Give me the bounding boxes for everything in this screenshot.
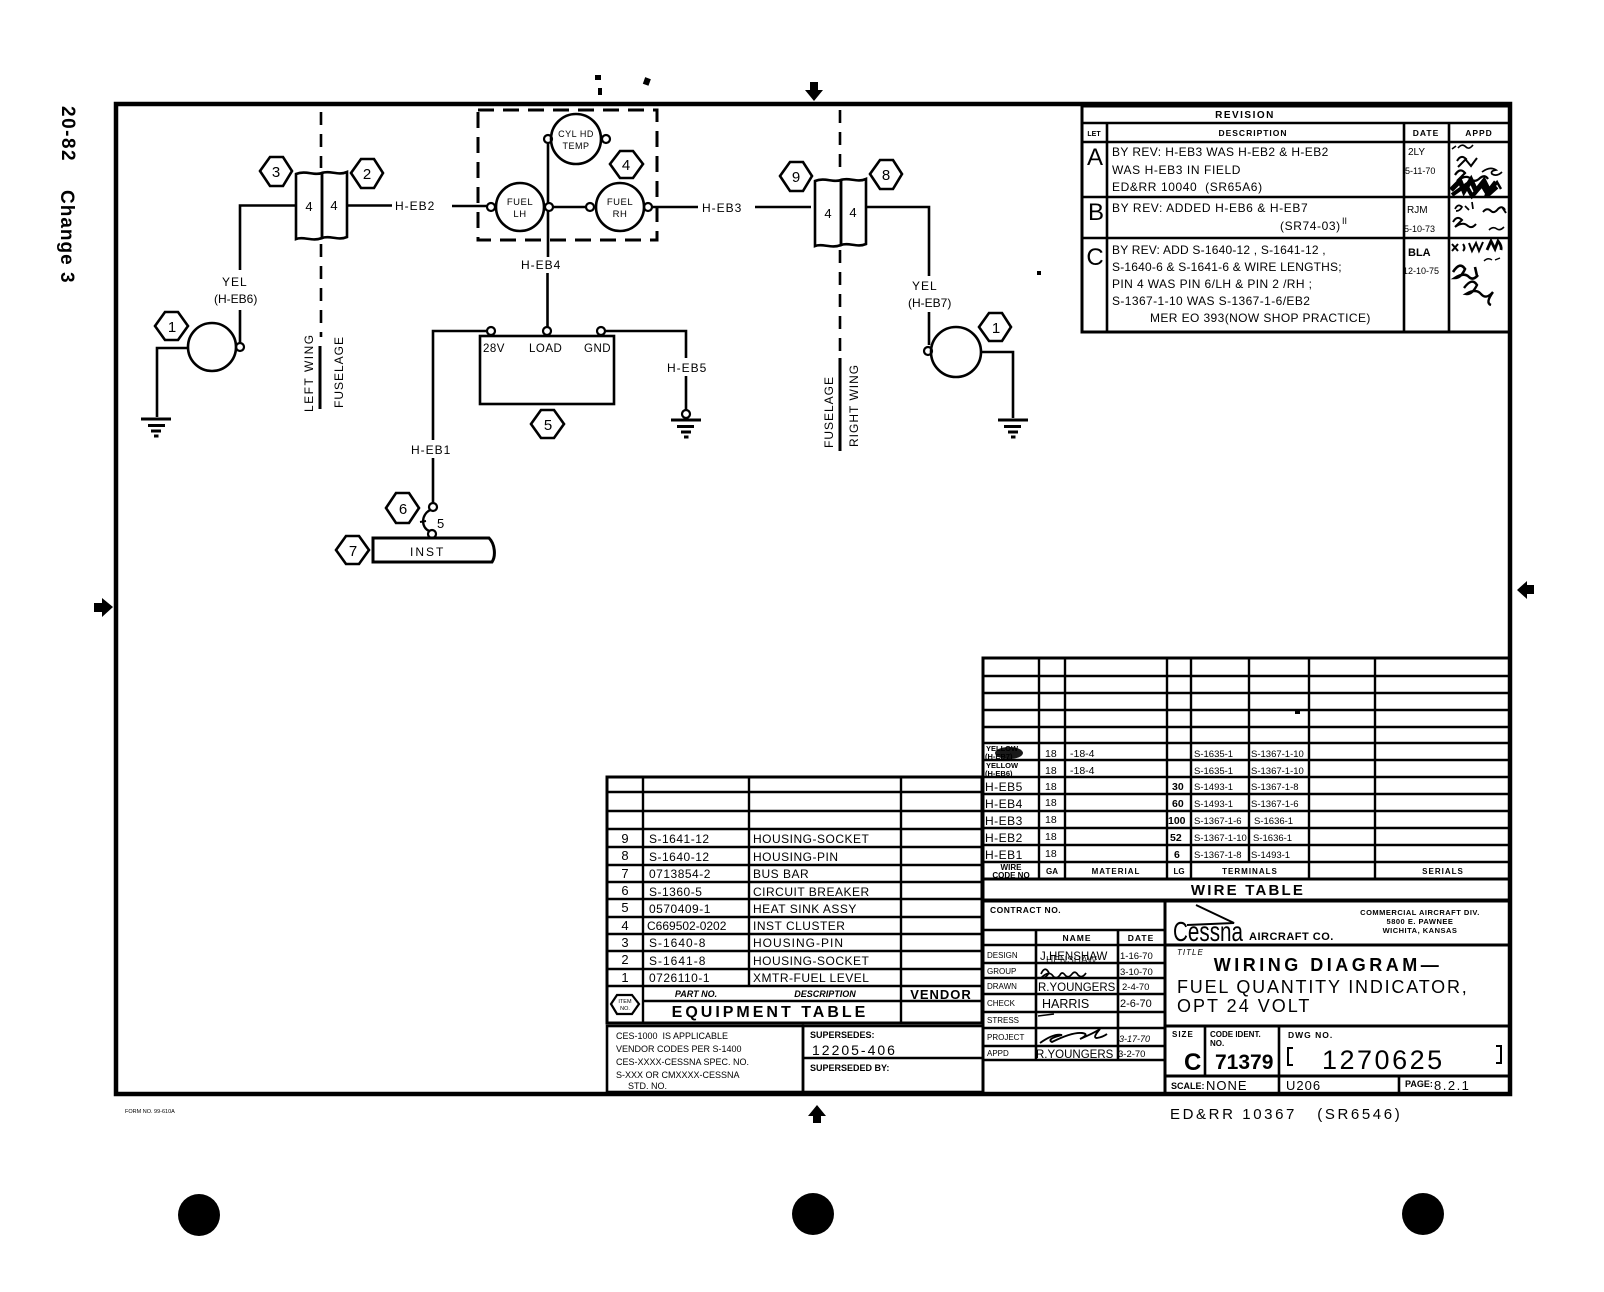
svg-text:HARRIS: HARRIS bbox=[1042, 997, 1089, 1011]
item no hexagon symbol bbox=[611, 995, 639, 1014]
design row bbox=[987, 951, 1153, 966]
svg-text:FUEL: FUEL bbox=[607, 197, 633, 208]
svg-text:12-10-75: 12-10-75 bbox=[1403, 266, 1439, 276]
equipment table grid bbox=[607, 777, 982, 1023]
svg-text:FUSELAGE: FUSELAGE bbox=[822, 376, 836, 448]
revision row A bbox=[1087, 144, 1435, 194]
group row (signature) bbox=[987, 967, 1153, 978]
vendor codes note box bbox=[607, 1026, 803, 1092]
equipment table header row bbox=[675, 987, 972, 1002]
svg-text:II: II bbox=[1342, 216, 1347, 226]
svg-text:TITLE: TITLE bbox=[1177, 948, 1204, 957]
svg-text:ITEM: ITEM bbox=[618, 999, 632, 1005]
svg-text:FUEL QUANTITY INDICATOR,: FUEL QUANTITY INDICATOR, bbox=[1177, 977, 1469, 997]
wire row H-EB7 (yellow) bbox=[995, 747, 1023, 759]
svg-text:S-1636-1: S-1636-1 bbox=[1253, 833, 1292, 844]
svg-text:SCALE:: SCALE: bbox=[1171, 1081, 1205, 1091]
svg-text:R.YOUNGERS: R.YOUNGERS bbox=[1036, 1049, 1114, 1061]
svg-text:HOUSING-PIN: HOUSING-PIN bbox=[753, 936, 844, 950]
svg-text:SIZE: SIZE bbox=[1172, 1030, 1194, 1039]
pin terminal FUEL LH right / node junction bbox=[545, 203, 553, 211]
gauge U-CYL: CYL HD TEMP bbox=[551, 114, 601, 164]
svg-text:1: 1 bbox=[621, 970, 628, 985]
svg-text:18: 18 bbox=[1045, 781, 1057, 793]
svg-text:20-82: 20-82 bbox=[57, 106, 78, 162]
svg-text:TERMINALS: TERMINALS bbox=[1222, 867, 1278, 876]
svg-text:5: 5 bbox=[437, 516, 444, 531]
svg-text:H-EB2: H-EB2 bbox=[985, 831, 1023, 845]
svg-text:C: C bbox=[1086, 244, 1103, 271]
revision row C approval signatures bbox=[1452, 241, 1501, 305]
svg-text:PROJECT: PROJECT bbox=[987, 1033, 1024, 1042]
svg-text:S-1367-1-8: S-1367-1-8 bbox=[1251, 782, 1299, 793]
svg-text:18: 18 bbox=[1045, 748, 1057, 760]
svg-text:3-17-70: 3-17-70 bbox=[1119, 1034, 1150, 1044]
pin terminal FUEL RH right bbox=[644, 203, 652, 211]
svg-text:U206: U206 bbox=[1286, 1078, 1321, 1093]
circuit breaker CB (item 6) pin 5 bbox=[420, 503, 444, 538]
svg-text:APPD: APPD bbox=[987, 1049, 1009, 1058]
hexagon callout 6 bbox=[386, 493, 419, 523]
project row (signature) bbox=[987, 1029, 1150, 1044]
svg-text:WAS H-EB3 IN FIELD: WAS H-EB3 IN FIELD bbox=[1112, 163, 1241, 177]
svg-text:1-16-70: 1-16-70 bbox=[1120, 951, 1153, 962]
wire row H-EB5 bbox=[985, 780, 1299, 794]
svg-text:2-4-70: 2-4-70 bbox=[1122, 982, 1149, 993]
svg-text:4: 4 bbox=[330, 198, 337, 213]
stress row bbox=[987, 1014, 1054, 1025]
svg-text:DESCRIPTION: DESCRIPTION bbox=[1218, 128, 1287, 138]
svg-text:CES-1000 IS APPLICABLE: CES-1000 IS APPLICABLE bbox=[616, 1031, 728, 1041]
registration arrow bottom (points up) bbox=[808, 1105, 826, 1123]
svg-text:GND: GND bbox=[584, 343, 611, 355]
wire row H-EB1 bbox=[985, 848, 1290, 862]
svg-text:INST: INST bbox=[410, 545, 445, 559]
registration arrow top (points down) bbox=[805, 82, 823, 101]
svg-text:R.YOUNGERS: R.YOUNGERS bbox=[1038, 982, 1116, 994]
svg-text:18: 18 bbox=[1045, 848, 1057, 860]
svg-text:-18-4: -18-4 bbox=[1070, 765, 1095, 777]
svg-text:LG: LG bbox=[1173, 867, 1184, 876]
drawing border frame bbox=[116, 104, 1510, 1094]
hexagon callout 1 (right) bbox=[979, 313, 1011, 341]
svg-text:S-1367-1-10: S-1367-1-10 bbox=[1251, 766, 1304, 777]
svg-text:RJM: RJM bbox=[1407, 205, 1428, 216]
svg-text:5-11-70: 5-11-70 bbox=[1405, 166, 1435, 176]
equipment row 2 bbox=[621, 952, 869, 968]
svg-text:APPD: APPD bbox=[1465, 128, 1493, 138]
hexagon callout 7 bbox=[336, 536, 369, 564]
svg-text:8.2.1: 8.2.1 bbox=[1434, 1078, 1470, 1093]
svg-text:S-1636-1: S-1636-1 bbox=[1254, 816, 1293, 827]
ground symbol (H-EB5) bbox=[671, 420, 701, 437]
wire junction to FUEL RH bbox=[553, 206, 586, 209]
svg-text:S-1640-6 & S-1641-6 & WIRE LEN: S-1640-6 & S-1641-6 & WIRE LENGTHS; bbox=[1112, 260, 1342, 274]
wire CYL-to-junction vertical bbox=[547, 143, 550, 203]
svg-text:18: 18 bbox=[1045, 831, 1057, 843]
svg-text:A: A bbox=[1087, 144, 1103, 171]
svg-text:DATE: DATE bbox=[1413, 128, 1440, 138]
svg-text:7: 7 bbox=[621, 866, 628, 881]
svg-text:H-EB1: H-EB1 bbox=[985, 848, 1023, 862]
transmitter XMTR fuel level RH (item 1) bbox=[931, 327, 981, 377]
drawn row bbox=[987, 982, 1149, 994]
title cell bbox=[1177, 948, 1469, 1016]
svg-text:HENSHAW: HENSHAW bbox=[1046, 955, 1097, 966]
svg-text:DESCRIPTION: DESCRIPTION bbox=[794, 989, 856, 999]
revision table bbox=[1082, 106, 1510, 332]
svg-text:4: 4 bbox=[824, 206, 831, 221]
svg-text:2: 2 bbox=[621, 952, 628, 967]
svg-text:EQUIPMENT TABLE: EQUIPMENT TABLE bbox=[672, 1004, 869, 1021]
equipment row 9 bbox=[621, 831, 869, 846]
svg-text:WIRING DIAGRAM—: WIRING DIAGRAM— bbox=[1214, 955, 1442, 975]
svg-text:52: 52 bbox=[1170, 832, 1182, 844]
svg-text:8: 8 bbox=[882, 167, 890, 184]
svg-text:VENDOR: VENDOR bbox=[910, 987, 972, 1002]
svg-text:5: 5 bbox=[621, 900, 628, 915]
svg-text:S-1493-1: S-1493-1 bbox=[1194, 782, 1233, 793]
svg-text:CES-XXXX-CESSNA SPEC. NO.: CES-XXXX-CESSNA SPEC. NO. bbox=[616, 1057, 749, 1067]
equipment row 4 bbox=[621, 918, 845, 933]
svg-text:FUEL: FUEL bbox=[507, 197, 533, 208]
svg-text:18: 18 bbox=[1045, 765, 1057, 777]
boundary FUSELAGE / RIGHT WING dashed line bbox=[839, 110, 842, 451]
svg-text:9: 9 bbox=[792, 169, 800, 186]
equipment row 8 bbox=[621, 848, 838, 864]
registration dot center bbox=[792, 1193, 834, 1235]
svg-text:9: 9 bbox=[621, 831, 628, 846]
supersedes box bbox=[803, 1026, 983, 1092]
pin terminal FUEL LH left bbox=[487, 203, 495, 211]
svg-text:4: 4 bbox=[849, 205, 856, 220]
svg-text:(SR74-03): (SR74-03) bbox=[1280, 219, 1341, 233]
svg-text:S-XXX OR CMXXXX-CESSNA: S-XXX OR CMXXXX-CESSNA bbox=[616, 1070, 740, 1080]
svg-text:S-1367-1-6: S-1367-1-6 bbox=[1251, 799, 1299, 810]
svg-text:S-1367-1-6: S-1367-1-6 bbox=[1194, 816, 1242, 827]
svg-text:S-1367-1-10: S-1367-1-10 bbox=[1251, 749, 1304, 760]
svg-text:2-6-70: 2-6-70 bbox=[1120, 998, 1152, 1010]
svg-text:1270625: 1270625 bbox=[1322, 1045, 1445, 1075]
svg-text:7: 7 bbox=[349, 543, 357, 560]
svg-text:COMMERCIAL AIRCRAFT DIV.: COMMERCIAL AIRCRAFT DIV. bbox=[1360, 908, 1480, 917]
svg-text:STRESS: STRESS bbox=[987, 1016, 1019, 1025]
svg-text:SERIALS: SERIALS bbox=[1422, 867, 1464, 876]
revision row C bbox=[1086, 243, 1439, 325]
gauge FUEL RH bbox=[596, 183, 644, 231]
svg-text:S-1360-5: S-1360-5 bbox=[649, 885, 702, 899]
svg-text:OPT 24 VOLT: OPT 24 VOLT bbox=[1177, 996, 1311, 1016]
wire row H-EB3 bbox=[985, 814, 1293, 828]
svg-text:S-1367-1-10 WAS S-1367-1-6/EB2: S-1367-1-10 WAS S-1367-1-6/EB2 bbox=[1112, 294, 1310, 308]
svg-text:DRAWN: DRAWN bbox=[987, 982, 1017, 991]
svg-text:(H-EB7): (H-EB7) bbox=[985, 752, 1013, 761]
svg-text:BY REV: ADD S-1640-12 , S-164: BY REV: ADD S-1640-12 , S-1641-12 , bbox=[1112, 243, 1326, 257]
code ident cell bbox=[1210, 1030, 1273, 1074]
wire row H-EB2 bbox=[985, 831, 1292, 845]
svg-text:18: 18 bbox=[1045, 797, 1057, 809]
size cell bbox=[1172, 1030, 1201, 1076]
svg-text:BUS BAR: BUS BAR bbox=[753, 867, 809, 881]
wire H-EB2 with label bbox=[348, 199, 487, 213]
svg-text:CODE NO: CODE NO bbox=[992, 871, 1029, 880]
svg-text:C669502-0202: C669502-0202 bbox=[647, 919, 727, 933]
check row bbox=[987, 997, 1152, 1011]
svg-text:NO.: NO. bbox=[620, 1006, 630, 1012]
svg-text:FUSELAGE: FUSELAGE bbox=[332, 336, 346, 408]
division address bbox=[1360, 908, 1480, 935]
svg-text:XMTR-FUEL LEVEL: XMTR-FUEL LEVEL bbox=[753, 971, 869, 985]
svg-text:Change 3: Change 3 bbox=[56, 190, 77, 284]
svg-text:3: 3 bbox=[272, 164, 280, 181]
svg-text:0570409-1: 0570409-1 bbox=[649, 902, 711, 916]
svg-text:INST CLUSTER: INST CLUSTER bbox=[753, 919, 845, 933]
equipment row 5 bbox=[621, 900, 857, 916]
wire table grid bbox=[983, 658, 1510, 900]
svg-text:DESIGN: DESIGN bbox=[987, 951, 1018, 960]
dwg no cell bbox=[1288, 1030, 1501, 1075]
svg-text:MER EO 393(NOW SHOP PRACTICE): MER EO 393(NOW SHOP PRACTICE) bbox=[1150, 311, 1371, 325]
svg-text:5: 5 bbox=[544, 417, 552, 434]
wire transmitter RH to ground bbox=[981, 352, 1013, 418]
svg-text:GA: GA bbox=[1046, 867, 1058, 876]
wire transmitter LH to ground bbox=[157, 348, 188, 417]
svg-text:BLA: BLA bbox=[1408, 247, 1431, 259]
equipment row 3 bbox=[621, 935, 844, 950]
svg-text:S-1641-8: S-1641-8 bbox=[649, 954, 706, 968]
svg-text:B: B bbox=[1088, 199, 1104, 226]
svg-text:H-EB2: H-EB2 bbox=[395, 199, 435, 213]
svg-text:PAGE:: PAGE: bbox=[1405, 1079, 1433, 1089]
hexagon callout 4 bbox=[610, 151, 643, 178]
hexagon callout 9 bbox=[780, 162, 812, 191]
Cessna logo bbox=[1173, 905, 1334, 947]
svg-text:6: 6 bbox=[1174, 849, 1180, 861]
svg-text:RH: RH bbox=[613, 209, 628, 220]
pin terminal ground H-EB5 bbox=[682, 410, 690, 418]
equipment row 6 bbox=[621, 883, 869, 899]
svg-text:3: 3 bbox=[621, 935, 628, 950]
gauge FUEL LH bbox=[496, 183, 544, 231]
svg-text:S-1640-8: S-1640-8 bbox=[649, 936, 706, 950]
svg-text:ED&RR 10367 (SR6546): ED&RR 10367 (SR6546) bbox=[1170, 1106, 1402, 1123]
svg-text:HOUSING-SOCKET: HOUSING-SOCKET bbox=[753, 954, 870, 968]
wire H-EB4 vertical with label bbox=[521, 211, 561, 327]
pin terminal CYL left bbox=[544, 135, 552, 143]
svg-text:6: 6 bbox=[399, 501, 407, 518]
svg-text:CODE IDENT.: CODE IDENT. bbox=[1210, 1030, 1261, 1039]
svg-text:S-1640-12: S-1640-12 bbox=[649, 850, 710, 864]
svg-text:Cessna: Cessna bbox=[1173, 916, 1243, 947]
svg-text:H-EB4: H-EB4 bbox=[985, 797, 1023, 811]
revision row B approval signatures bbox=[1453, 202, 1506, 230]
svg-text:NAME: NAME bbox=[1062, 933, 1091, 943]
wire YEL (H-EB6) from connector to transmitter bbox=[214, 206, 296, 343]
svg-text:100: 100 bbox=[1168, 815, 1186, 827]
hexagon callout 2 bbox=[351, 159, 383, 188]
svg-text:ED&RR 10040 (SR65A6): ED&RR 10040 (SR65A6) bbox=[1112, 180, 1263, 194]
ink specks bbox=[595, 75, 1300, 714]
svg-text:H-EB5: H-EB5 bbox=[985, 780, 1023, 794]
svg-text:2LY: 2LY bbox=[1408, 147, 1425, 158]
svg-text:LEFT WING: LEFT WING bbox=[302, 333, 316, 412]
svg-text:S-1367-1-8: S-1367-1-8 bbox=[1194, 850, 1242, 861]
svg-text:0713854-2: 0713854-2 bbox=[649, 867, 711, 881]
svg-text:CHECK: CHECK bbox=[987, 999, 1016, 1008]
pin terminal transmitter LH bbox=[236, 343, 244, 351]
Change 3 (rotated margin text) bbox=[56, 190, 77, 284]
pin terminal FUEL RH left bbox=[586, 203, 594, 211]
svg-text:RIGHT WING: RIGHT WING bbox=[847, 364, 861, 447]
svg-text:VENDOR CODES PER S-1400: VENDOR CODES PER S-1400 bbox=[616, 1044, 742, 1054]
svg-text:4: 4 bbox=[622, 157, 630, 174]
svg-text:H-EB1: H-EB1 bbox=[411, 443, 451, 457]
hexagon callout 1 (left) bbox=[155, 312, 188, 340]
svg-text:H-EB4: H-EB4 bbox=[521, 258, 561, 272]
svg-text:PIN 4 WAS PIN 6/LH & PIN 2 /RH: PIN 4 WAS PIN 6/LH & PIN 2 /RH ; bbox=[1112, 277, 1312, 291]
svg-text:MATERIAL: MATERIAL bbox=[1092, 867, 1141, 876]
title block grid bbox=[983, 901, 1510, 1094]
instrument cluster dashed box (item 4) bbox=[478, 110, 657, 240]
svg-text:NONE: NONE bbox=[1206, 1078, 1248, 1093]
svg-text:NO.: NO. bbox=[1210, 1039, 1224, 1048]
svg-text:LET: LET bbox=[1087, 131, 1101, 138]
svg-text:LOAD: LOAD bbox=[529, 343, 562, 355]
hexagon callout 5 bbox=[531, 410, 564, 438]
ground symbol (right transmitter) bbox=[998, 420, 1028, 437]
svg-text:(H-EB7): (H-EB7) bbox=[908, 296, 951, 310]
svg-text:DATE: DATE bbox=[1128, 933, 1155, 943]
svg-text:S-1493-1: S-1493-1 bbox=[1194, 799, 1233, 810]
page number 20-82 (rotated margin text) bbox=[57, 106, 78, 162]
svg-text:S-1367-1-10: S-1367-1-10 bbox=[1194, 833, 1247, 844]
wire YEL (H-EB7) from connector to transmitter bbox=[866, 207, 951, 345]
svg-text:LH: LH bbox=[513, 209, 526, 220]
pin terminal CYL right bbox=[602, 135, 610, 143]
registration dot right bbox=[1402, 1193, 1444, 1235]
svg-text:(H-EB6): (H-EB6) bbox=[214, 292, 257, 306]
registration arrow right (points left) bbox=[1517, 581, 1534, 599]
svg-text:DWG NO.: DWG NO. bbox=[1288, 1030, 1333, 1040]
pin terminal GND bbox=[597, 327, 605, 335]
svg-text:6: 6 bbox=[621, 883, 628, 898]
svg-text:FORM NO. 99-610A: FORM NO. 99-610A bbox=[125, 1109, 175, 1115]
indicator assy fuel quantity (item 5) 28V/LOAD/GND bbox=[480, 336, 614, 404]
registration arrow left (points right) bbox=[94, 598, 113, 617]
svg-text:(H-EB6): (H-EB6) bbox=[985, 769, 1013, 778]
equipment row 7 bbox=[621, 866, 809, 881]
svg-text:REVISION: REVISION bbox=[1215, 110, 1275, 121]
boundary LEFT WING / FUSELAGE dashed line bbox=[320, 112, 321, 409]
svg-text:4: 4 bbox=[621, 918, 628, 933]
svg-text:BY REV: H-EB3 WAS H-EB2 & H-EB: BY REV: H-EB3 WAS H-EB2 & H-EB2 bbox=[1112, 145, 1329, 159]
revision row A approval signatures bbox=[1451, 145, 1502, 196]
svg-text:H-EB3: H-EB3 bbox=[702, 201, 742, 215]
svg-text:1: 1 bbox=[992, 320, 1000, 337]
hexagon callout 3 bbox=[260, 157, 292, 186]
svg-text:H-EB3: H-EB3 bbox=[985, 814, 1023, 828]
svg-text:12205-406: 12205-406 bbox=[812, 1042, 897, 1058]
svg-text:WIRE TABLE: WIRE TABLE bbox=[1191, 882, 1305, 899]
wire H-EB3 with label bbox=[652, 201, 811, 215]
svg-text:PART NO.: PART NO. bbox=[675, 989, 717, 999]
bus bar INST (item 7) bbox=[373, 538, 494, 562]
svg-text:STD. NO.: STD. NO. bbox=[628, 1081, 667, 1091]
wire row H-EB4 bbox=[985, 797, 1299, 811]
svg-text:2: 2 bbox=[363, 166, 371, 183]
svg-text:BY REV: ADDED H-EB6 & H-EB7: BY REV: ADDED H-EB6 & H-EB7 bbox=[1112, 201, 1308, 215]
svg-text:3-10-70: 3-10-70 bbox=[1120, 967, 1153, 978]
wire row H-EB6 (yellow) bbox=[985, 761, 1304, 778]
svg-text:C: C bbox=[1184, 1049, 1201, 1076]
svg-text:5-10-73: 5-10-73 bbox=[1404, 224, 1435, 234]
wire H-EB1 from 28V to breaker with label bbox=[411, 331, 487, 502]
scale row bbox=[1171, 1078, 1470, 1093]
svg-text:3-2-70: 3-2-70 bbox=[1118, 1049, 1145, 1060]
svg-text:GROUP: GROUP bbox=[987, 967, 1016, 976]
wire table header row bbox=[992, 863, 1464, 880]
connector J-LH wing root (4|4) bbox=[296, 172, 347, 239]
pin terminal 28V bbox=[487, 327, 495, 335]
svg-text:SUPERSEDES:: SUPERSEDES: bbox=[810, 1030, 875, 1040]
svg-text:18: 18 bbox=[1045, 814, 1057, 826]
appd row bbox=[987, 1049, 1145, 1061]
svg-text:YEL: YEL bbox=[912, 279, 938, 293]
revision row B bbox=[1088, 199, 1435, 234]
ground symbol (left transmitter) bbox=[141, 419, 171, 436]
svg-text:0726110-1: 0726110-1 bbox=[649, 971, 710, 985]
pin terminal LOAD bbox=[543, 327, 551, 335]
pin terminal transmitter RH bbox=[924, 347, 932, 355]
svg-text:1: 1 bbox=[168, 319, 176, 336]
svg-text:S-1493-1: S-1493-1 bbox=[1251, 850, 1290, 861]
svg-text:8: 8 bbox=[621, 848, 628, 863]
svg-text:TEMP: TEMP bbox=[562, 141, 589, 151]
svg-text:HOUSING-SOCKET: HOUSING-SOCKET bbox=[753, 832, 870, 846]
svg-text:S-1635-1: S-1635-1 bbox=[1194, 766, 1233, 777]
svg-text:CYL HD: CYL HD bbox=[558, 129, 594, 139]
svg-text:WICHITA, KANSAS: WICHITA, KANSAS bbox=[1383, 926, 1458, 935]
svg-text:AIRCRAFT CO.: AIRCRAFT CO. bbox=[1249, 931, 1334, 943]
svg-text:S-1641-12: S-1641-12 bbox=[649, 832, 710, 846]
svg-text:SUPERSEDED BY:: SUPERSEDED BY: bbox=[810, 1063, 889, 1073]
svg-text:30: 30 bbox=[1172, 781, 1184, 793]
svg-text:HEAT SINK ASSY: HEAT SINK ASSY bbox=[753, 902, 857, 916]
svg-text:60: 60 bbox=[1172, 798, 1184, 810]
svg-text:CIRCUIT BREAKER: CIRCUIT BREAKER bbox=[753, 885, 870, 899]
registration dot left bbox=[178, 1194, 220, 1236]
hexagon callout 8 bbox=[870, 160, 902, 189]
svg-text:HOUSING-PIN: HOUSING-PIN bbox=[753, 850, 839, 864]
connector J-RH wing root (4|4) bbox=[815, 179, 866, 246]
transmitter XMTR fuel level LH (item 1) bbox=[188, 323, 236, 371]
svg-text:CONTRACT NO.: CONTRACT NO. bbox=[990, 905, 1061, 915]
svg-text:YEL: YEL bbox=[222, 275, 248, 289]
svg-text:5800 E. PAWNEE: 5800 E. PAWNEE bbox=[1387, 917, 1454, 926]
svg-text:H-EB5: H-EB5 bbox=[667, 361, 707, 375]
svg-text:S-1635-1: S-1635-1 bbox=[1194, 749, 1233, 760]
svg-text:4: 4 bbox=[305, 199, 312, 214]
svg-text:71379: 71379 bbox=[1215, 1051, 1273, 1074]
equipment row 1 bbox=[621, 970, 869, 985]
svg-text:28V: 28V bbox=[483, 343, 505, 355]
wire H-EB5 to ground with label bbox=[605, 331, 707, 410]
svg-text:-18-4: -18-4 bbox=[1070, 748, 1095, 760]
